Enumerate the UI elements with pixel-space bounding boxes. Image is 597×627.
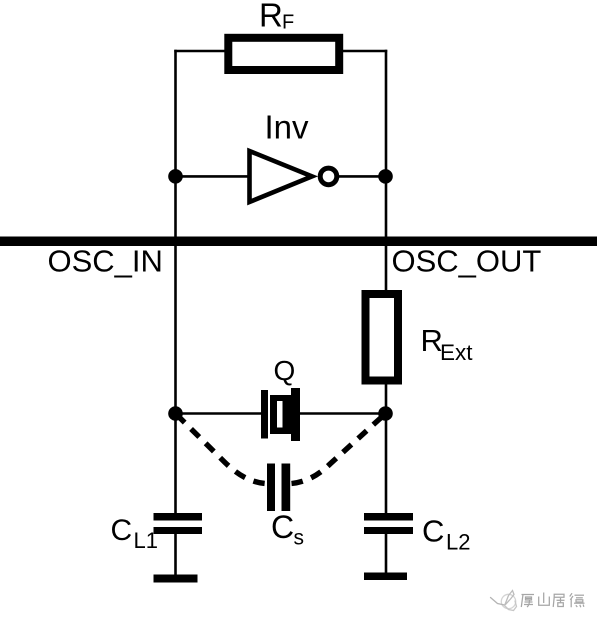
capacitor Cs left plate: [267, 464, 275, 512]
chip boundary thick line: [0, 237, 597, 247]
inverter output bubble: [320, 168, 337, 185]
capacitor CL1 bottom plate: [154, 527, 203, 534]
wire inverter input: [176, 175, 251, 178]
crystal Q right plate: [291, 388, 300, 441]
wire CL2 to ground: [385, 533, 388, 576]
watermark text 厚山居德: [521, 593, 584, 608]
capacitor Cs right plate: [282, 464, 291, 512]
resistor RExt: [366, 294, 399, 381]
wire dashed stray right: [292, 415, 385, 484]
wire crystal left: [176, 412, 264, 415]
capacitor CL2 bottom plate: [364, 527, 413, 534]
capacitor CL2 top plate: [364, 513, 413, 521]
wire inverter output: [336, 175, 386, 178]
wire crystal right: [297, 412, 386, 415]
wire right vertical middle: [385, 380, 388, 514]
op-amp U1 inverter triangle: [250, 151, 313, 202]
watermark logo: [491, 591, 517, 611]
resistor RF: [228, 38, 339, 70]
svg-text:L1: L1: [134, 528, 158, 553]
node crystal left junction dot: [168, 406, 183, 421]
svg-text:C: C: [271, 509, 294, 545]
crystal Q body slot: [277, 401, 283, 428]
svg-text:s: s: [294, 527, 305, 550]
wire top-left horizontal: [174, 50, 230, 53]
capacitor CL1 top plate: [154, 513, 203, 521]
wire left vertical rail: [174, 50, 177, 514]
svg-text:C: C: [111, 514, 133, 547]
svg-text:OSC_OUT: OSC_OUT: [392, 244, 542, 279]
ground right: [364, 573, 407, 581]
wire CL1 to ground: [174, 533, 177, 578]
wire right vertical upper: [385, 50, 388, 294]
svg-text:Inv: Inv: [265, 109, 310, 146]
svg-text:C: C: [422, 514, 444, 549]
crystal Q body: [270, 395, 299, 434]
node OSC_OUT junction dot: [378, 169, 393, 184]
node crystal right junction dot: [378, 406, 393, 421]
wire dashed stray left: [177, 415, 266, 484]
ground left: [154, 575, 198, 583]
svg-text:OSC_IN: OSC_IN: [48, 244, 163, 279]
svg-text:Q: Q: [274, 355, 296, 386]
wire top-right horizontal: [338, 50, 387, 53]
svg-text:L2: L2: [446, 530, 470, 555]
crystal Q left plate: [261, 390, 268, 439]
node OSC_IN junction dot: [168, 169, 183, 184]
svg-text:R: R: [259, 0, 283, 34]
svg-text:Ext: Ext: [440, 340, 473, 365]
svg-text:F: F: [282, 12, 294, 34]
